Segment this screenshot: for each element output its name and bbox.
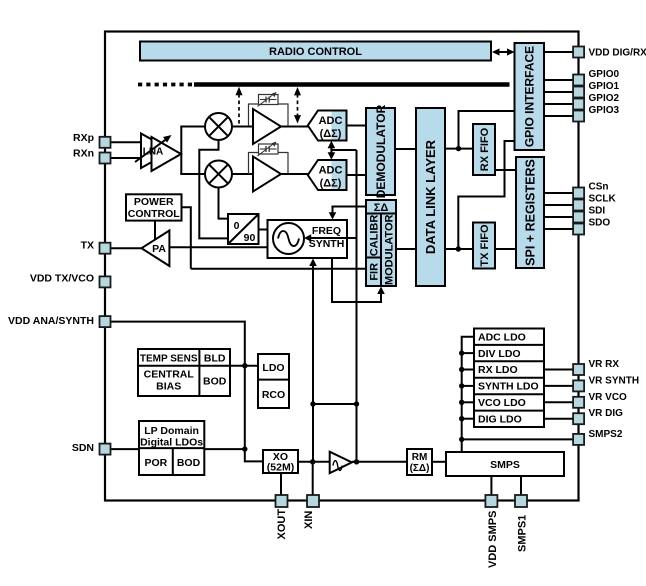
wire SMPS to VDD SMPS pin <box>490 476 492 496</box>
wire RX FIFO to SPI <box>495 169 516 171</box>
node junction XIN tap <box>310 459 315 464</box>
svg-text:TX: TX <box>81 240 94 252</box>
block LP Domain Digital LDOs / POR / BOD <box>139 421 204 475</box>
svg-text:XOUT: XOUT <box>276 509 288 540</box>
svg-text:RM: RM <box>412 452 428 463</box>
wire GPIO INTERFACE to GPIO1 pin <box>544 91 574 93</box>
svg-text:SMPS: SMPS <box>490 459 520 471</box>
svg-text:FIR: FIR <box>369 263 381 281</box>
ADC (ΔΣ) top <box>308 111 347 141</box>
wire FIFO crossover to GPIO <box>458 141 514 249</box>
svg-text:BIAS: BIAS <box>156 381 181 393</box>
svg-text:SYNTH: SYNTH <box>309 238 345 250</box>
block TX FIFO <box>473 223 495 269</box>
pin XIN <box>307 495 319 507</box>
wire sigma-delta to FREQ SYNTH with down arrow <box>329 207 366 220</box>
wire XO to buffer <box>298 461 330 463</box>
svg-text:LNA: LNA <box>143 147 164 158</box>
node junction DLL-RXFIFO <box>456 146 461 151</box>
wire double arrow RADIO CONTROL to GPIO INTERFACE <box>492 48 515 55</box>
wire double arrow between ADCs <box>328 141 336 160</box>
block 0/90 phase splitter <box>228 214 259 244</box>
pin SMPS1 <box>515 495 527 507</box>
wire FREQ SYNTH bottom loop to MODULATOR bottom with up arrow <box>332 258 385 302</box>
block TEMP SENS / CENTRAL BIAS table <box>138 349 230 396</box>
wire bottom mixer LO input <box>219 188 229 219</box>
wire SPI to SDI pin <box>544 216 574 218</box>
feedback loop bottom amp with variable capacitor <box>249 142 289 175</box>
svg-text:DATA LINK LAYER: DATA LINK LAYER <box>423 139 438 254</box>
svg-text:DIG LDO: DIG LDO <box>478 413 522 425</box>
wire branch up to GPIO INTERFACE <box>459 111 515 149</box>
svg-text:(ΔΣ): (ΔΣ) <box>320 177 342 189</box>
wire DATA LINK LAYER to TX FIFO <box>445 248 473 250</box>
node junction rung right <box>354 401 359 406</box>
node junction SDN wire on ANA rail <box>242 446 247 451</box>
block FIR <box>366 258 381 287</box>
svg-text:ADC: ADC <box>319 164 343 176</box>
pin SDO <box>573 224 584 235</box>
pin VDD SMPS <box>485 495 497 507</box>
wire buffer to RM <box>352 461 407 463</box>
mixer Q (bottom) <box>205 161 232 188</box>
amplifier LNA <box>135 134 181 172</box>
buffer clock triangle <box>330 452 352 473</box>
svg-text:POWER: POWER <box>134 196 174 208</box>
svg-text:VR RX: VR RX <box>589 359 620 370</box>
wire RXn to LNA <box>111 157 143 159</box>
wire DIG LDO to VR DIG pin <box>544 418 574 420</box>
wire GPIO INTERFACE to GPIO3 pin <box>544 115 574 117</box>
svg-text:VDD SMPS: VDD SMPS <box>487 511 499 568</box>
wire rail into FREQ SYNTH circle with left arrow <box>304 234 357 242</box>
wire top mixer to ADC <box>232 126 309 128</box>
block XO (52M) <box>263 450 298 474</box>
svg-text:VR SYNTH: VR SYNTH <box>589 375 640 386</box>
svg-text:CENTRAL: CENTRAL <box>144 369 195 381</box>
wire VDD ANA/SYNTH rail to XO <box>111 322 264 462</box>
block RADIO CONTROL <box>140 42 491 61</box>
pin VR SYNTH <box>573 380 584 391</box>
pin RXn <box>100 153 111 164</box>
wire GPIO INTERFACE to GPIO2 pin <box>544 103 574 105</box>
wire rail to SMPS2 pin <box>462 438 574 440</box>
svg-text:90: 90 <box>244 232 256 244</box>
wire 0/90 to FREQ SYNTH <box>259 229 268 231</box>
wire LP Domain box to ANA rail <box>204 448 245 450</box>
block FREQ SYNTH <box>268 220 348 258</box>
pin VDD TX/VCO <box>100 276 111 287</box>
svg-text:POR: POR <box>145 457 168 469</box>
wire bus thick line <box>194 82 510 87</box>
svg-text:RXp: RXp <box>73 132 94 144</box>
block MODULATOR <box>381 214 396 287</box>
node junctions LDO rail <box>459 350 464 442</box>
wire SYNTH LDO to VR SYNTH pin <box>544 385 574 387</box>
ADC (ΔΣ) bottom <box>308 160 347 190</box>
amplifier top (I path) <box>253 109 281 144</box>
wire dashed double arrow at x=297.5 <box>294 87 301 124</box>
svg-text:VDD TX/VCO: VDD TX/VCO <box>30 273 94 285</box>
pin XOUT <box>276 495 288 507</box>
wire clock up to FREQ SYNTH bottom with up arrow <box>309 259 317 462</box>
wire ADC bottom to DEMODULATOR <box>347 174 367 176</box>
wire DATA LINK LAYER to RX FIFO <box>445 148 473 150</box>
wire RX LDO to VR RX pin <box>544 369 574 371</box>
svg-text:RXn: RXn <box>73 148 94 160</box>
block SMPS <box>446 452 564 476</box>
svg-text:SYNTH LDO: SYNTH LDO <box>478 381 539 393</box>
wire RXp to LNA <box>111 141 143 143</box>
block LDO stack <box>474 329 544 428</box>
svg-text:CALIBR: CALIBR <box>369 215 381 257</box>
wire XO down to XOUT pin <box>280 473 282 496</box>
svg-text:BOD: BOD <box>177 457 201 469</box>
wire LDO stack left rail <box>462 337 474 452</box>
svg-text:ΣΔ: ΣΔ <box>374 202 389 214</box>
block sigma-delta strip <box>366 200 396 214</box>
svg-text:(ΔΣ): (ΔΣ) <box>320 128 342 140</box>
wire bottom mixer to ADC <box>232 173 309 175</box>
pin RXp <box>100 137 111 148</box>
wire ADC top to DEMODULATOR <box>347 125 367 127</box>
pin GPIO0 <box>573 75 584 86</box>
svg-text:SDI: SDI <box>589 206 606 217</box>
block LDO / RCO <box>258 354 289 408</box>
svg-text:VR DIG: VR DIG <box>589 408 624 419</box>
svg-text:GPIO INTERFACE: GPIO INTERFACE <box>523 46 537 147</box>
wire PA input from FREQ SYNTH <box>169 246 267 248</box>
pin VDD DIG/RX <box>573 47 584 58</box>
svg-text:(ΣΔ): (ΣΔ) <box>410 463 430 474</box>
pin TX <box>100 243 111 254</box>
pin SCLK <box>573 200 584 211</box>
svg-text:DEMODULATOR: DEMODULATOR <box>374 104 388 198</box>
pin CSn <box>573 188 584 199</box>
svg-text:GPIO1: GPIO1 <box>589 81 620 92</box>
wire VCO LDO to VR VCO pin <box>544 401 574 403</box>
wire rung between clock rails <box>313 403 357 405</box>
svg-text:LDO: LDO <box>262 362 284 374</box>
wire SPI to SDO pin <box>544 228 574 230</box>
svg-text:VCO LDO: VCO LDO <box>478 397 526 409</box>
pin VR RX <box>573 364 584 375</box>
amplifier PA <box>142 231 170 267</box>
wire from ADC interconnect to vertical rail <box>331 149 356 151</box>
svg-text:TEMP SENS: TEMP SENS <box>140 353 198 364</box>
svg-text:ADC: ADC <box>319 115 343 127</box>
wire DEMODULATOR to DATA LINK LAYER <box>395 148 416 150</box>
svg-text:SMPS1: SMPS1 <box>516 515 528 552</box>
svg-text:RX FIFO: RX FIFO <box>479 127 491 171</box>
svg-text:CSn: CSn <box>589 182 609 193</box>
svg-text:SCLK: SCLK <box>589 194 617 205</box>
amplifier bottom (Q path) <box>253 157 281 192</box>
svg-text:BLD: BLD <box>204 352 226 364</box>
svg-text:GPIO3: GPIO3 <box>589 105 620 116</box>
pin GPIO3 <box>573 111 584 122</box>
wire TX FIFO to SPI <box>495 248 516 250</box>
block DEMODULATOR <box>366 104 395 198</box>
pin SMPS2 <box>573 434 584 445</box>
svg-text:VR VCO: VR VCO <box>589 392 628 403</box>
pin VR DIG <box>573 413 584 424</box>
wire TX pin to PA <box>111 247 142 249</box>
wire vertical rail x=356.5 <box>356 150 358 462</box>
svg-text:ADC LDO: ADC LDO <box>478 331 526 343</box>
wire TEMP table to LDO <box>230 365 258 367</box>
wire SMPS to SMPS1 pin <box>520 476 522 496</box>
svg-text:LP Domain: LP Domain <box>144 425 199 437</box>
wire POWER CONTROL to PA <box>154 221 156 241</box>
chip outer border <box>105 32 579 501</box>
block GPIO INTERFACE <box>515 43 545 150</box>
svg-text:VDD DIG/RX: VDD DIG/RX <box>589 48 646 59</box>
svg-text:FREQ: FREQ <box>312 225 341 237</box>
wire POWER CONTROL right rail down <box>182 207 191 268</box>
block RM (ΣΔ) <box>407 449 432 475</box>
svg-text:SMPS2: SMPS2 <box>589 429 623 440</box>
pin SDI <box>573 212 584 223</box>
wire LNA output split to mixers <box>180 127 205 175</box>
svg-text:SDO: SDO <box>589 218 611 229</box>
svg-text:SPI + REGISTERS: SPI + REGISTERS <box>523 159 537 266</box>
svg-text:SDN: SDN <box>72 442 94 454</box>
wire SPI to SCLK pin <box>544 204 574 206</box>
wire SDN pin to LP Domain box <box>111 448 140 450</box>
svg-text:Digital LDOs: Digital LDOs <box>140 437 203 449</box>
block POWER CONTROL <box>126 194 182 220</box>
wire MODULATOR to DATA LINK LAYER <box>396 248 416 250</box>
pin SDN <box>100 444 111 455</box>
svg-text:RX LDO: RX LDO <box>478 364 518 376</box>
svg-text:RCO: RCO <box>262 389 285 401</box>
block DATA LINK LAYER <box>416 108 445 286</box>
svg-text:(52M): (52M) <box>267 462 294 474</box>
node junction on ANA rail at TEMP wire <box>242 363 247 368</box>
wire SPI to CSn pin <box>544 192 574 194</box>
wire top mixer LO input <box>199 140 228 238</box>
mixer I (top) <box>205 113 232 140</box>
svg-text:0: 0 <box>234 220 240 232</box>
node junction rung left <box>310 401 315 406</box>
wire RM to SMPS <box>432 461 446 463</box>
wire bus dashed left part <box>138 83 196 87</box>
feedback loop top amp with variable capacitor <box>249 92 289 126</box>
wire POWER CONTROL rail to FIR left edge <box>191 268 366 270</box>
wire GPIO INTERFACE to GPIO0 pin <box>544 79 574 81</box>
svg-text:MODULATOR: MODULATOR <box>384 215 396 286</box>
svg-text:XIN: XIN <box>303 511 315 529</box>
wire XIN pin up to clock line <box>312 462 314 496</box>
node junction clock rail <box>354 459 359 464</box>
pin GPIO2 <box>573 99 584 110</box>
wire dashed arrow up into bus at x=239 <box>236 87 243 126</box>
svg-text:BOD: BOD <box>203 376 227 388</box>
block SPI + REGISTERS <box>516 157 544 268</box>
svg-text:TX FIFO: TX FIFO <box>479 224 491 267</box>
svg-text:RADIO CONTROL: RADIO CONTROL <box>269 46 362 58</box>
wire GPIO INTERFACE to VDD DIG/RX pin <box>544 51 574 53</box>
pin VDD ANA/SYNTH <box>100 316 111 327</box>
block RX FIFO <box>473 124 495 175</box>
pin GPIO1 <box>573 87 584 98</box>
svg-text:CONTROL: CONTROL <box>128 208 180 220</box>
block CALIBR <box>366 214 381 258</box>
svg-text:DIV LDO: DIV LDO <box>478 348 521 360</box>
node junction DLL-TXFIFO <box>456 246 461 251</box>
pin VR VCO <box>573 397 584 408</box>
svg-text:PA: PA <box>152 243 166 255</box>
svg-text:GPIO2: GPIO2 <box>589 93 620 104</box>
svg-text:GPIO0: GPIO0 <box>589 69 620 80</box>
svg-text:VDD ANA/SYNTH: VDD ANA/SYNTH <box>8 315 94 327</box>
